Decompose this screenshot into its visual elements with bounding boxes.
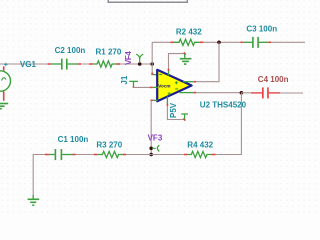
svg-text:R1 270: R1 270 (96, 48, 122, 57)
node junction dot at IN+ column (150, 62, 154, 66)
resistor R3 (94, 151, 126, 157)
wire J1 to VOCM pin (134, 86, 151, 88)
sine mark inside VG1 (2, 78, 7, 81)
svg-text:C2 100n: C2 100n (55, 46, 86, 55)
wire R1 to input node (120, 63, 152, 65)
svg-text:J1: J1 (120, 75, 129, 84)
ground G2 corner red mark (184, 52, 186, 54)
wire IN- down column (150, 101, 152, 155)
capacitor C2 (48, 59, 81, 70)
jumper P5V (181, 114, 188, 119)
jumper J1 (129, 81, 138, 86)
node dot R3/R4 junction (149, 153, 153, 157)
svg-text:C1 100n: C1 100n (58, 135, 89, 144)
wire node to IN+ pin (151, 64, 153, 73)
wire output up column (218, 42, 220, 81)
wire C1 corner to ground (33, 155, 45, 196)
svg-text:VF4: VF4 (124, 51, 133, 65)
resistor R4 (184, 151, 216, 157)
node dot output/C4/R4 (240, 91, 244, 95)
node + mark VG1 (4, 63, 7, 66)
probe VF4 (136, 54, 143, 63)
pin IN+ stub (153, 74, 158, 76)
capacitor C4 (selected red) (251, 87, 280, 98)
J1 pin red mark (133, 86, 135, 88)
svg-text:R3 270: R3 270 (96, 140, 122, 149)
wire R2 to C3 (203, 41, 240, 43)
resistor R1 (89, 61, 120, 67)
op-amp minus mark lower output (175, 88, 178, 90)
pin VOCM red mark (150, 86, 153, 88)
bottom power pin red mark (166, 104, 168, 106)
ground G1 at source (0, 104, 8, 109)
pin OUT- red mark (193, 92, 196, 94)
svg-text:R4 432: R4 432 (187, 141, 213, 150)
wire junction to R4 (151, 154, 184, 156)
svg-text:R2 432: R2 432 (176, 28, 202, 37)
wire bottom power to P5V (167, 106, 183, 120)
voltage source VG1 circle (0, 71, 11, 91)
pin IN- red mark (150, 99, 152, 101)
pin OUT+ red mark (193, 81, 196, 83)
wire C3 out (271, 41, 305, 43)
VG1 bottom pin red mark (3, 91, 5, 100)
op-amp bottom power pin (166, 97, 168, 104)
op-amp minus mark upper input (159, 73, 162, 75)
svg-text:U2 THS4520: U2 THS4520 (200, 100, 247, 109)
wire top power to ground (169, 54, 185, 69)
wire R3 to junction (126, 154, 151, 156)
op-amp top power pin (168, 71, 170, 76)
probe VF3 (152, 145, 159, 151)
wire C4 out (280, 92, 303, 94)
top power pin red mark (168, 68, 170, 71)
grey box fragment top edge (108, 0, 187, 2)
wire R4 to feedback column (216, 154, 242, 156)
wire R2 row left (152, 41, 170, 43)
svg-text:Vocm: Vocm (158, 84, 170, 89)
resistor R2 (170, 39, 203, 45)
pin VOCM stub (153, 86, 158, 88)
wire C2 to R1 (81, 63, 89, 65)
wire OUT- row (196, 92, 241, 94)
pin OUT+ stub (183, 81, 193, 83)
svg-text:C4 100n: C4 100n (258, 75, 289, 84)
ground G2 (180, 54, 192, 64)
pin IN+ red mark (151, 73, 153, 76)
VG1 top pin red mark (3, 66, 5, 71)
svg-text:P5V: P5V (169, 102, 178, 118)
wire OUT+ to column (196, 81, 220, 83)
wire feedback down column (240, 93, 242, 155)
op-amp plus mark upper output (175, 81, 178, 84)
svg-text:VG1: VG1 (20, 60, 37, 69)
op-amp plus mark lower (168, 92, 171, 95)
wire VG1 to C2 (0, 63, 48, 65)
capacitor C1 (45, 149, 76, 160)
svg-text:VF3: VF3 (148, 133, 163, 142)
pin OUT- stub (180, 92, 194, 94)
node VF4 dot (138, 62, 142, 66)
op-amp U2 triangle (157, 70, 191, 101)
pin IN- stub (152, 99, 158, 101)
node dot R2/C3/output (217, 41, 221, 45)
capacitor C3 (240, 37, 271, 48)
node VF3 probe dot (149, 147, 153, 151)
svg-text:C3 100n: C3 100n (246, 25, 277, 34)
P5V corner red mark (183, 118, 185, 120)
wire C1 to R3 (76, 154, 94, 156)
ground G3 (28, 195, 40, 205)
wire node to C4 (241, 92, 251, 94)
wire R2 left drop (151, 42, 153, 64)
